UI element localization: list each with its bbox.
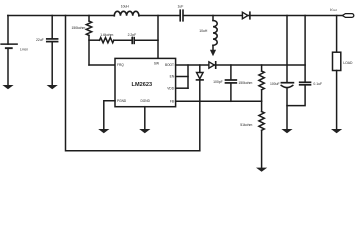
wire EN pin	[176, 76, 188, 78]
svg-text:Li-Ion: Li-Ion	[20, 48, 28, 52]
battery BT1 Li-Ion	[7, 16, 9, 45]
svg-text:10uH: 10uH	[199, 29, 208, 33]
svg-text:EN: EN	[170, 75, 175, 79]
diode D1 (output, on rail)	[242, 12, 248, 19]
resistor R2 1.6kohm (horizontal)	[100, 38, 114, 43]
wire BOOT rail	[176, 64, 306, 66]
wire freq branch	[89, 39, 100, 41]
wire top rail right of 1uF	[184, 15, 243, 17]
svg-text:150kohm: 150kohm	[238, 81, 252, 85]
wire arrow to switch node	[210, 50, 216, 56]
svg-text:PGND: PGND	[117, 99, 127, 103]
svg-text:out: out	[333, 8, 337, 12]
svg-text:10uH: 10uH	[121, 5, 130, 9]
svg-text:1.6kohm: 1.6kohm	[100, 33, 113, 37]
capacitor C6 0.1uF (output ceramic)	[304, 16, 306, 82]
wire top rail left segment	[8, 15, 115, 17]
diode D3 (vertical, boot from VIN)	[199, 65, 201, 151]
svg-text:FRQ: FRQ	[117, 63, 124, 67]
svg-text:VDD: VDD	[167, 86, 174, 90]
wire VDD pin	[176, 87, 188, 89]
ground (battery)	[2, 85, 13, 89]
capacitor C2 2.2pF (series on branch)	[131, 38, 133, 44]
ground (PGND)	[98, 129, 109, 133]
capacitor C5 100uF (output electrolytic)	[286, 16, 288, 83]
resistor R5 LOAD (box style)	[336, 16, 338, 53]
inductor L1 10uH	[114, 11, 139, 16]
resistor R3 150kohm (feedback top)	[261, 65, 263, 71]
ground (DGND)	[139, 129, 150, 133]
wire branch to SW line	[135, 39, 158, 41]
IC U1 LM2623 body	[115, 58, 176, 106]
svg-text:FB: FB	[170, 100, 174, 104]
svg-text:BOOT: BOOT	[165, 63, 174, 67]
ground (R4)	[256, 168, 267, 172]
svg-text:DGND: DGND	[141, 99, 151, 103]
wire DGND pin	[144, 107, 146, 129]
svg-text:100pF: 100pF	[213, 80, 223, 84]
wire top rail mid segment	[139, 15, 180, 17]
svg-text:SW: SW	[154, 61, 159, 65]
wire FB pin	[176, 100, 262, 102]
wire SW pin drop from rail	[157, 16, 159, 59]
svg-text:22uF: 22uF	[36, 38, 44, 42]
ground (C1)	[47, 85, 58, 89]
wire FRQ pin	[89, 64, 115, 66]
svg-text:2.2pF: 2.2pF	[128, 33, 137, 37]
wire BOOT-EN-VDD bus	[187, 65, 189, 88]
ground (LOAD)	[331, 129, 342, 133]
svg-text:51kohm: 51kohm	[240, 123, 252, 127]
capacitor C3 1uF (bootstrap, series on rail)	[179, 10, 181, 21]
resistor R4 51kohm (feedback bottom)	[259, 112, 264, 131]
inductor L2 10uH (vertical)	[212, 16, 214, 21]
svg-text:0.1uF: 0.1uF	[313, 82, 322, 86]
diode D2 (horizontal, on BOOT line)	[209, 62, 214, 68]
wire top rail to Vout	[248, 15, 342, 17]
wire PGND pin	[104, 101, 115, 129]
ground (C5)	[281, 129, 292, 133]
svg-text:1uF: 1uF	[177, 4, 183, 8]
svg-text:LOAD: LOAD	[343, 61, 353, 65]
svg-text:100uF: 100uF	[270, 82, 280, 86]
capacitor C4 100pF	[230, 65, 232, 80]
capacitor C1 22uF (input)	[51, 16, 53, 39]
wire to C2	[114, 39, 132, 41]
resistor R1 150kohm (freq, vertical)	[88, 16, 90, 22]
svg-text:150kohm: 150kohm	[71, 26, 85, 30]
svg-text:LM2623: LM2623	[132, 82, 153, 88]
node Vout connector tag	[342, 14, 353, 18]
wire VIN down-left loop to boot diode	[66, 16, 200, 151]
